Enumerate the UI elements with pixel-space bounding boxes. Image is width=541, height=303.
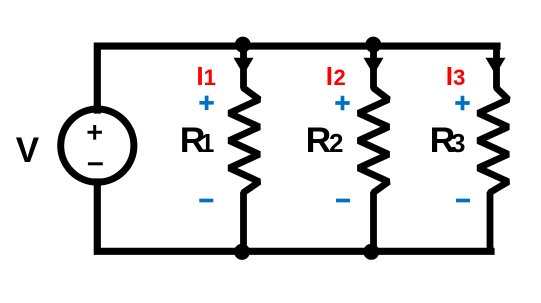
svg-text:I: I — [326, 61, 333, 91]
svg-text:I: I — [446, 61, 453, 91]
svg-text:I: I — [196, 61, 203, 91]
svg-text:1: 1 — [204, 65, 216, 90]
svg-text:R: R — [306, 120, 332, 160]
svg-text:2: 2 — [329, 128, 343, 158]
svg-text:2: 2 — [334, 65, 346, 90]
svg-text:1: 1 — [200, 128, 214, 158]
svg-text:V: V — [16, 131, 40, 170]
svg-text:3: 3 — [451, 128, 465, 158]
svg-text:3: 3 — [453, 65, 465, 90]
